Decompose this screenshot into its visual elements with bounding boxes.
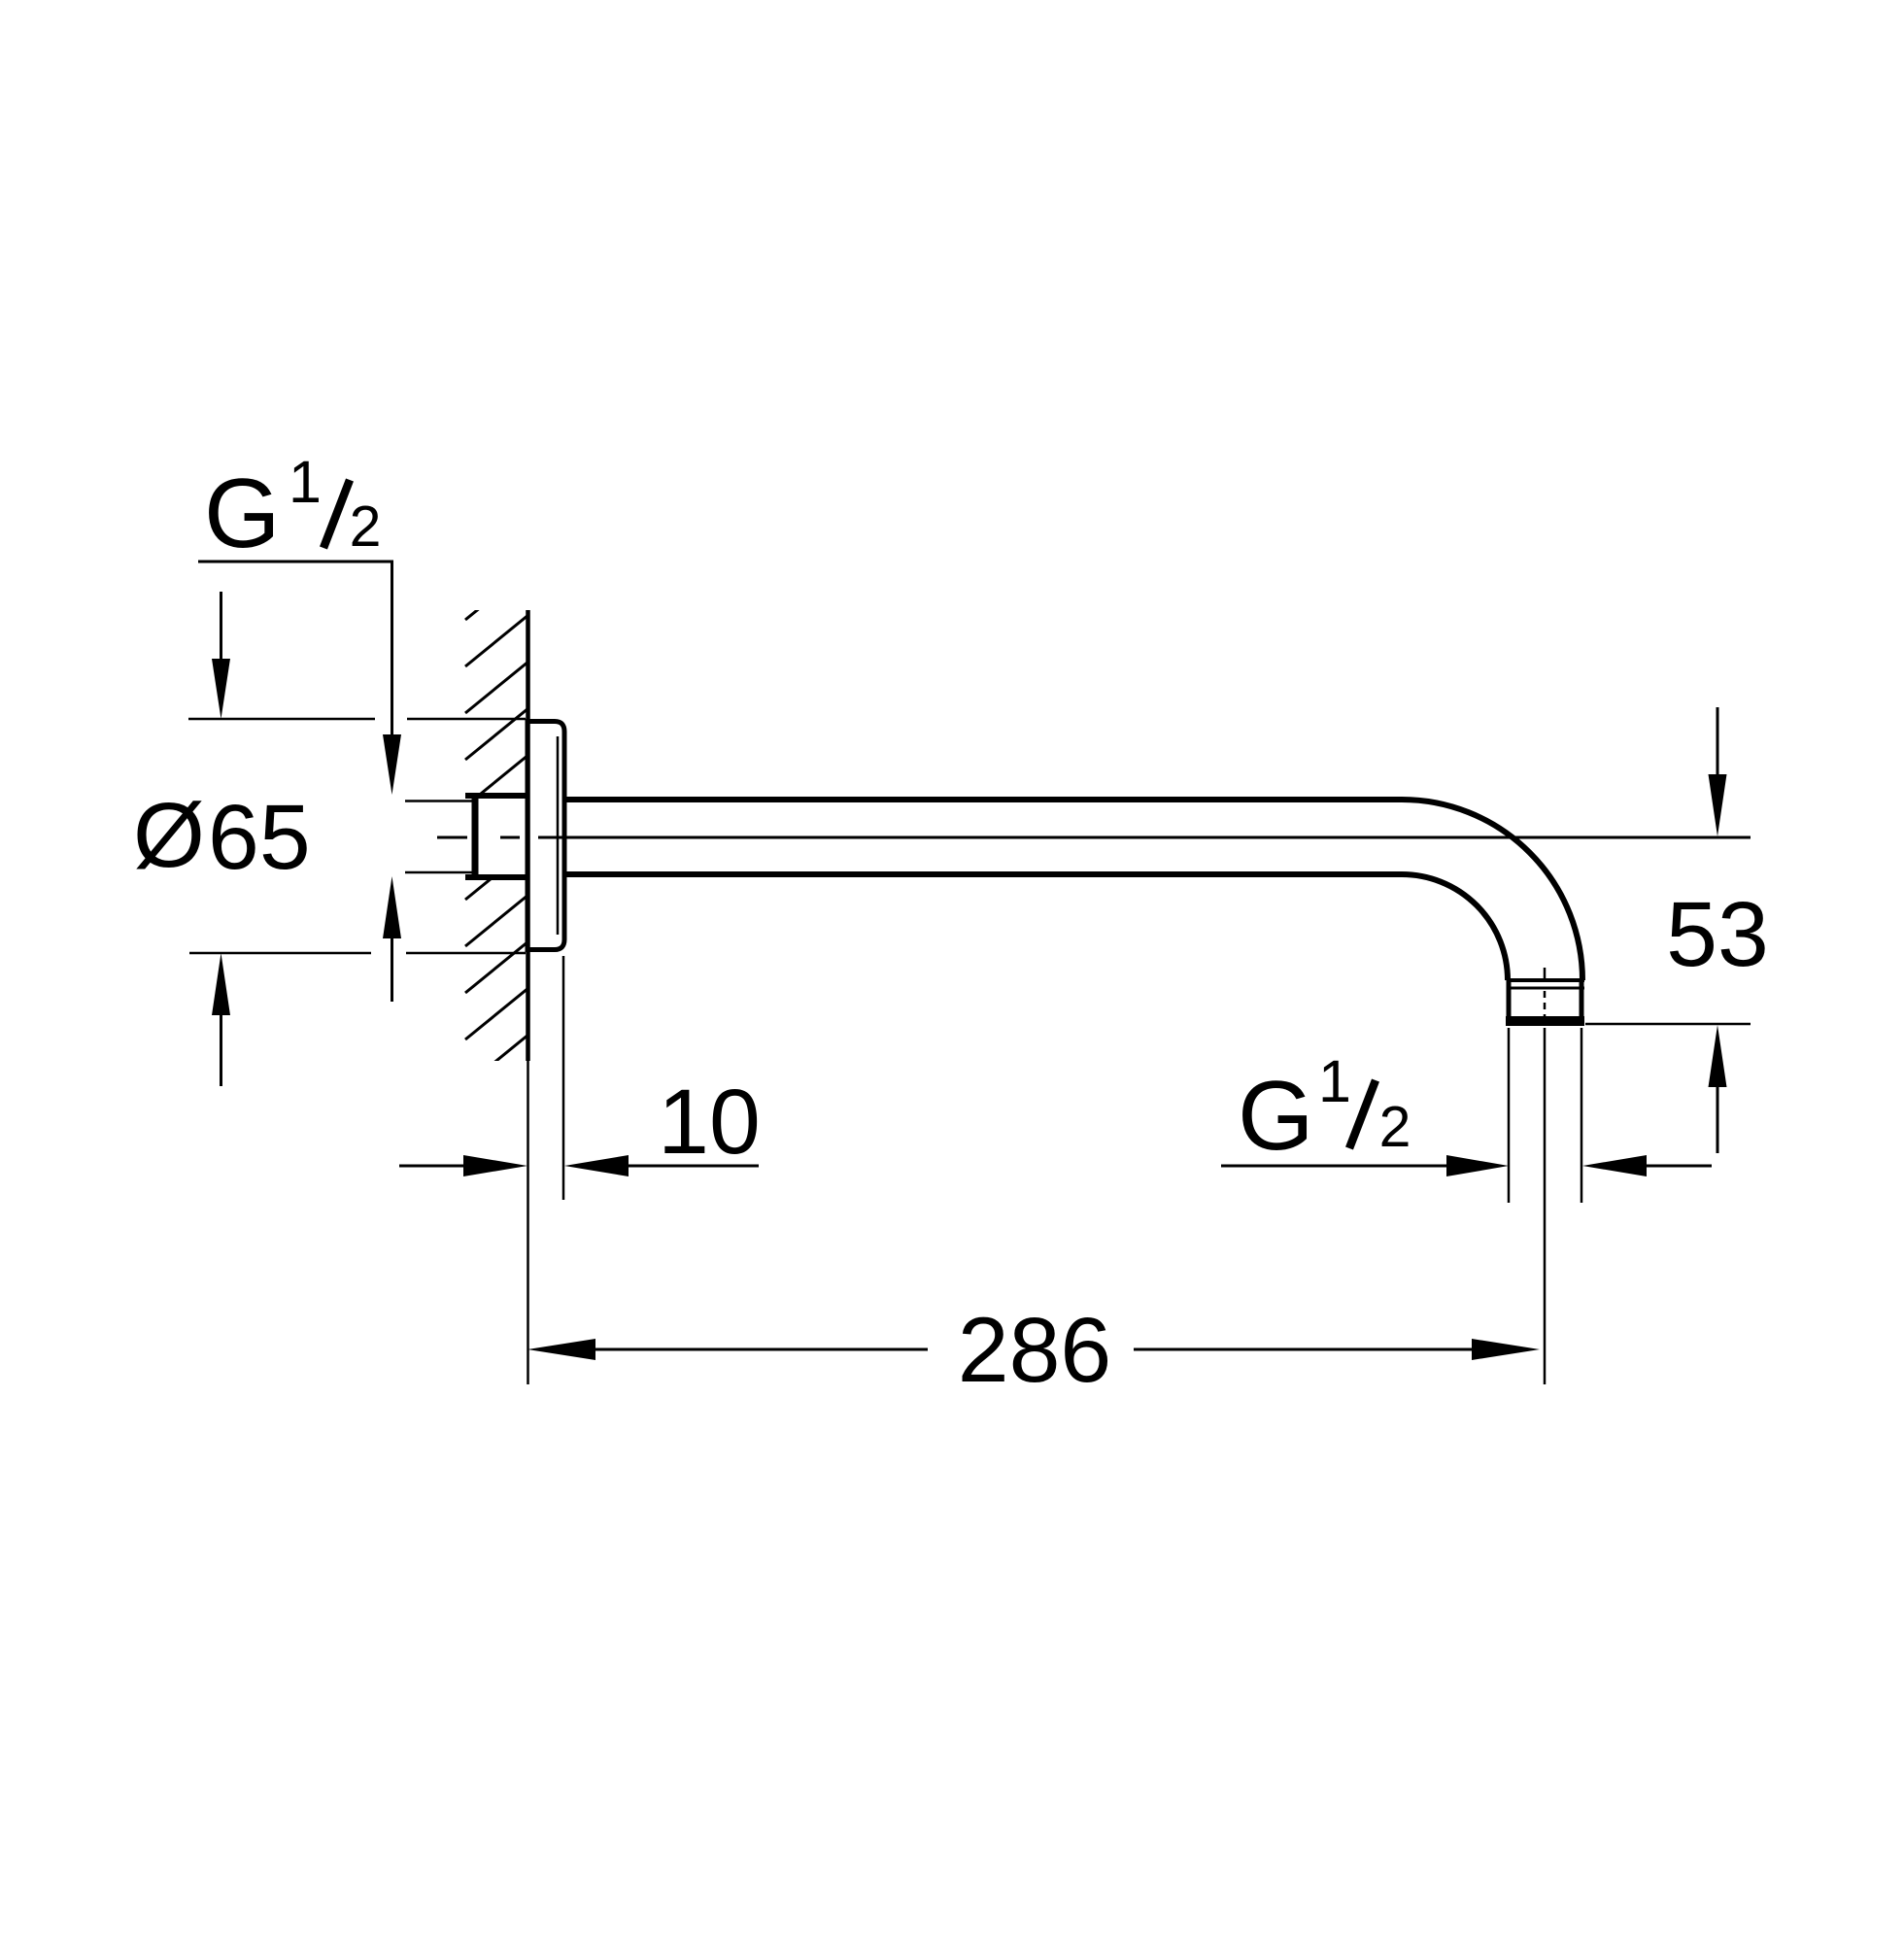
- dimension line for 10 (left part): [399, 1165, 467, 1168]
- wall-side G1/2 threaded nipple: [463, 794, 530, 879]
- arrow left to outlet thread right side: [1582, 1155, 1712, 1176]
- outlet thread left extension line: [1508, 1028, 1511, 1203]
- label G 1/2 (outlet thread): [1238, 1048, 1411, 1171]
- flange escutcheon: [527, 722, 564, 950]
- svg-text:G: G: [1238, 1062, 1314, 1171]
- svg-text:2: 2: [1379, 1095, 1411, 1159]
- arrow up to flange bottom: [212, 953, 230, 1086]
- shower arm tube bottom outline with inner bend: [564, 874, 1508, 980]
- outlet end extension line (53 bottom): [1585, 1023, 1751, 1026]
- arrow left to flange face: [564, 1155, 759, 1176]
- outlet nut G1/2: [1506, 980, 1584, 1023]
- arrow left to wall face (286): [527, 1339, 595, 1360]
- outlet thread right extension line: [1581, 1028, 1583, 1203]
- arrow up to nipple bottom edge: [383, 876, 401, 1002]
- wall line: [526, 610, 530, 1061]
- arm centerline (dash-dot): [437, 836, 1751, 839]
- svg-text:Ø: Ø: [133, 784, 205, 887]
- arrow down to nipple top edge: [383, 734, 401, 795]
- arrow up to outlet end (53 bottom): [1709, 1025, 1727, 1153]
- arrow right to outlet thread left side: [1446, 1155, 1509, 1176]
- svg-text:53: 53: [1666, 883, 1769, 986]
- svg-text:2: 2: [350, 494, 382, 559]
- dimension line for 286 (right part): [1134, 1348, 1473, 1351]
- svg-text:65: 65: [208, 786, 311, 889]
- Ø65 top extension line: [188, 718, 526, 721]
- wall face extension line down to 286 dimension: [527, 1061, 529, 1384]
- flange face extension line: [562, 956, 565, 1200]
- leader line for top G1/2 label: [198, 562, 392, 735]
- nipple thread bottom extension line: [405, 871, 478, 874]
- arrow down to flange top: [212, 592, 230, 719]
- shower arm tube top outline with outer bend: [564, 800, 1582, 980]
- wall hatching: [465, 568, 528, 1086]
- dimension line for outlet G1/2 (left part): [1221, 1165, 1449, 1168]
- arrow down to arm centerline (53 top): [1709, 707, 1727, 836]
- label G 1/2 (wall thread): [204, 449, 381, 568]
- dimension line for 286 (left part): [595, 1348, 928, 1351]
- label Ø 65 (flange diameter): [133, 784, 311, 889]
- arrow right to outlet centerline (286): [1472, 1339, 1540, 1360]
- svg-text:10: 10: [658, 1071, 761, 1174]
- nipple thread top extension line: [405, 800, 478, 802]
- svg-text:286: 286: [958, 1299, 1112, 1402]
- svg-text:G: G: [204, 460, 281, 568]
- arrow right to wall face: [463, 1155, 527, 1176]
- Ø65 bottom extension line: [189, 952, 526, 955]
- svg-text:1: 1: [289, 449, 322, 515]
- svg-text:1: 1: [1318, 1048, 1351, 1114]
- outlet centerline (vertical): [1544, 968, 1547, 1384]
